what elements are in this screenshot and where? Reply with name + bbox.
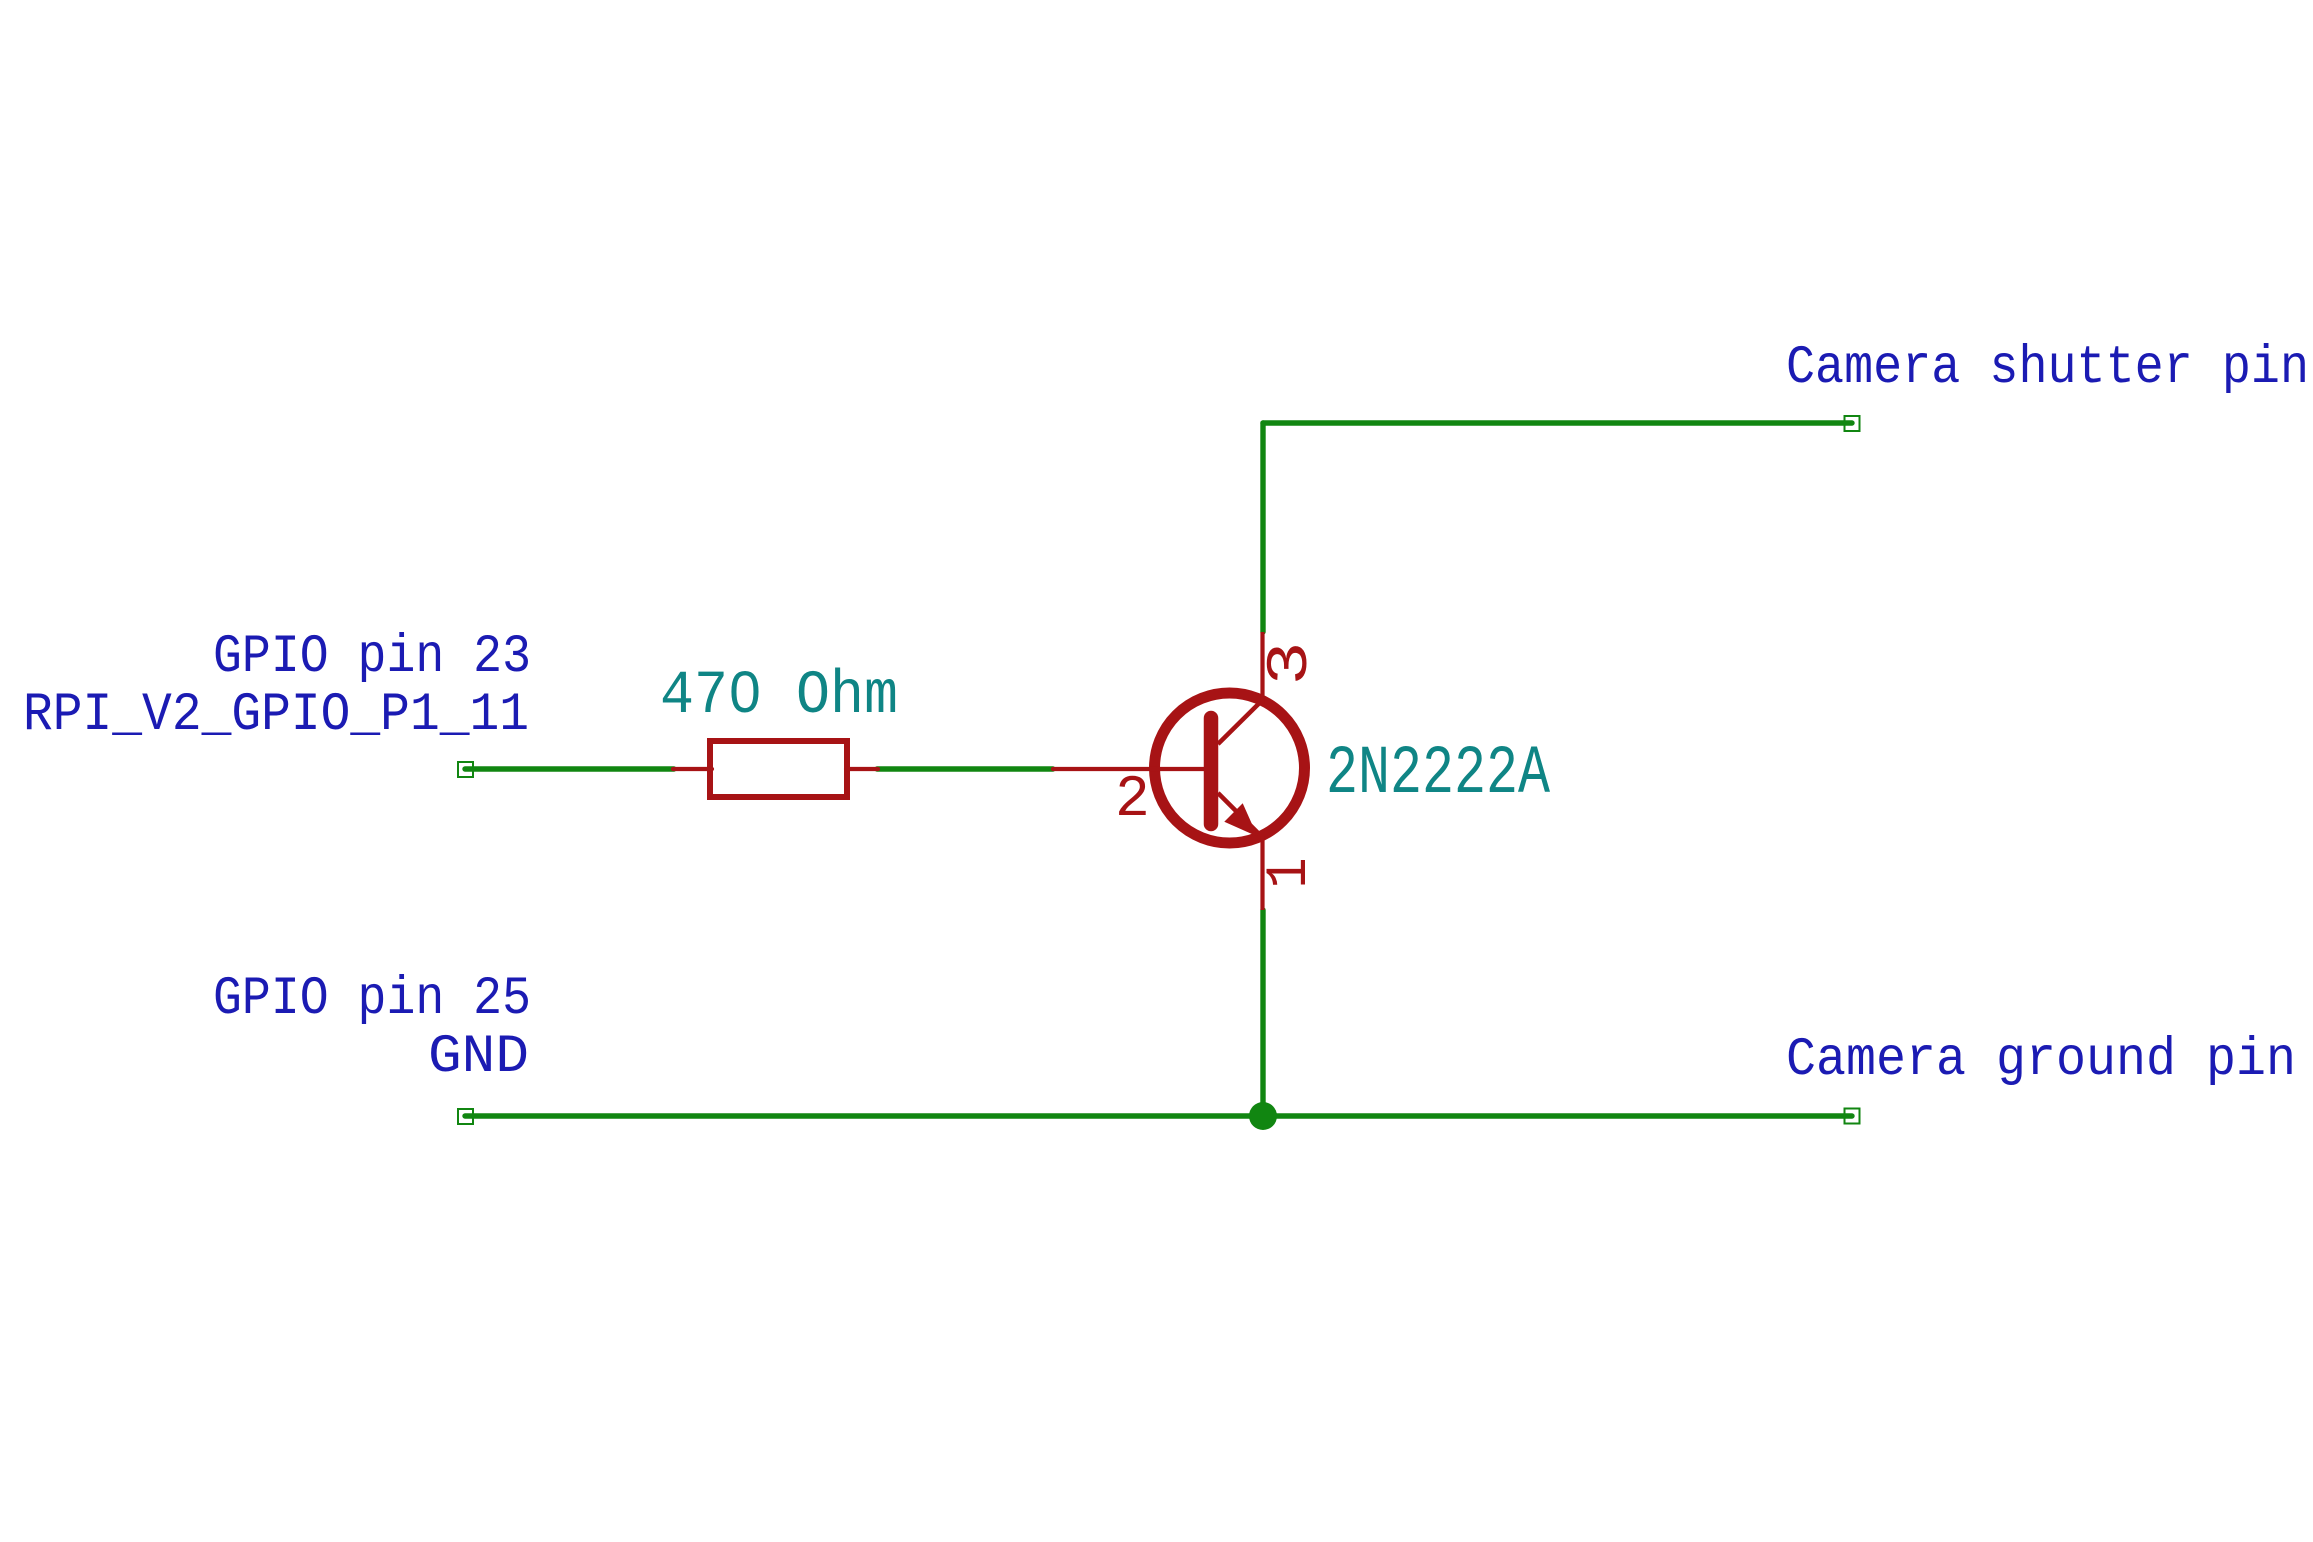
svg-text:2: 2	[1115, 768, 1150, 833]
transistor base pin	[1053, 767, 1205, 771]
transistor Q1 2N2222A body circle	[1155, 693, 1305, 843]
wire: GPIO 23 to resistor	[465, 766, 674, 771]
terminal square: camera ground pin wire end	[1845, 1109, 1860, 1124]
svg-text:GND: GND	[428, 1027, 529, 1088]
transistor emitter arrow	[1224, 803, 1257, 836]
transistor base bar	[1204, 718, 1219, 824]
junction dot on ground rail	[1249, 1102, 1277, 1130]
wire: bottom ground rail	[465, 1113, 1852, 1118]
transistor emitter diagonal	[1218, 793, 1263, 838]
terminal square: GPIO pin 23 wire end	[458, 762, 473, 777]
svg-text:GPIO pin 23: GPIO pin 23	[213, 627, 531, 688]
terminal square: camera shutter pin wire end	[1845, 416, 1860, 431]
wire: resistor to base	[877, 766, 1053, 771]
svg-text:Camera ground pin: Camera ground pin	[1786, 1030, 2296, 1091]
svg-text:RPI_V2_GPIO_P1_11: RPI_V2_GPIO_P1_11	[23, 685, 529, 746]
transistor emitter pin	[1260, 836, 1264, 910]
zero glyph dot mask	[740, 686, 751, 704]
transistor collector diagonal	[1218, 700, 1263, 744]
resistor R1 470 Ohm body	[710, 741, 847, 797]
resistor pin 1 (left)	[673, 767, 712, 771]
terminal square: GPIO pin 25 / GND wire end	[458, 1109, 473, 1124]
svg-text:2N2222A: 2N2222A	[1326, 735, 1550, 813]
wire: top horizontal (collector to camera shutter pin)	[1263, 420, 1852, 425]
svg-text:3: 3	[1259, 642, 1324, 686]
wire: emitter vertical	[1260, 910, 1265, 1116]
resistor pin 2 (right)	[846, 767, 878, 771]
svg-text:Camera shutter pin: Camera shutter pin	[1786, 338, 2309, 399]
wire: collector vertical	[1260, 423, 1265, 632]
svg-text:1: 1	[1258, 858, 1323, 889]
svg-text:470 Ohm: 470 Ohm	[660, 662, 898, 731]
svg-text:GPIO pin 25: GPIO pin 25	[213, 969, 531, 1030]
transistor collector pin	[1260, 632, 1264, 704]
